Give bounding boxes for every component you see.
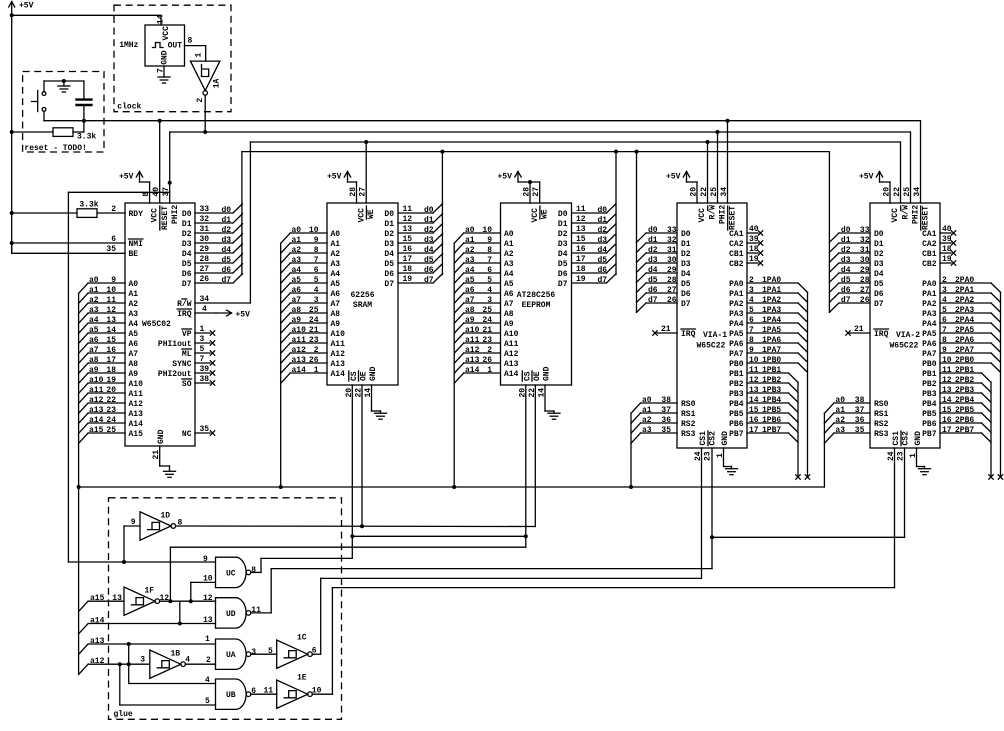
svg-text:D3: D3 bbox=[182, 240, 192, 249]
wire data bus spine bbox=[242, 151, 830, 153]
svg-text:35: 35 bbox=[661, 426, 671, 435]
svg-text:VIA-1: VIA-1 bbox=[703, 331, 727, 340]
data bus d0-d7 at VIA VIA-2 bbox=[829, 226, 883, 312]
wire PHI2 net bbox=[170, 131, 910, 133]
svg-text:WE: WE bbox=[541, 209, 550, 219]
data bus vertical (SRAM) bbox=[440, 150, 444, 275]
svg-text:A4: A4 bbox=[504, 270, 514, 279]
VIA VIA-1 IRQ pin 21 bbox=[653, 325, 696, 339]
svg-text:2PB0: 2PB0 bbox=[955, 356, 974, 365]
svg-text:21: 21 bbox=[661, 325, 671, 334]
svg-text:37: 37 bbox=[661, 406, 671, 415]
svg-text:31: 31 bbox=[860, 246, 870, 255]
svg-text:3: 3 bbox=[140, 655, 145, 664]
nand UB bbox=[216, 679, 257, 709]
svg-text:4: 4 bbox=[314, 286, 319, 295]
svg-text:1PA5: 1PA5 bbox=[762, 326, 781, 335]
svg-text:A2: A2 bbox=[331, 250, 341, 259]
svg-text:d4: d4 bbox=[424, 246, 434, 255]
svg-text:d5: d5 bbox=[424, 256, 434, 265]
svg-text:VP: VP bbox=[182, 330, 192, 339]
address bus a0-a14 at SRAM bbox=[281, 226, 345, 383]
svg-text:CA2: CA2 bbox=[729, 240, 744, 249]
svg-text:1PA2: 1PA2 bbox=[762, 296, 781, 305]
svg-text:PA5: PA5 bbox=[729, 330, 744, 339]
svg-text:RS3: RS3 bbox=[874, 430, 889, 439]
svg-text:2PB1: 2PB1 bbox=[955, 366, 974, 375]
svg-text:8: 8 bbox=[314, 246, 319, 255]
svg-text:1PA0: 1PA0 bbox=[762, 276, 781, 285]
svg-text:a3: a3 bbox=[465, 256, 475, 265]
svg-text:19: 19 bbox=[749, 255, 759, 264]
VIA VIA-1 box bbox=[677, 203, 747, 448]
svg-text:BE: BE bbox=[129, 250, 139, 259]
svg-text:29: 29 bbox=[860, 266, 870, 275]
svg-text:WE: WE bbox=[367, 209, 376, 219]
svg-text:12: 12 bbox=[203, 594, 213, 603]
svg-text:d2: d2 bbox=[841, 246, 851, 255]
svg-text:9: 9 bbox=[942, 346, 947, 355]
svg-text:a10: a10 bbox=[292, 326, 307, 335]
svg-text:CS1: CS1 bbox=[892, 431, 901, 446]
svg-text:23: 23 bbox=[704, 451, 713, 461]
svg-text:PB7: PB7 bbox=[729, 430, 744, 439]
svg-text:4: 4 bbox=[749, 296, 754, 305]
svg-text:2PB3: 2PB3 bbox=[955, 386, 974, 395]
svg-text:VCC: VCC bbox=[891, 208, 900, 223]
wire UC output bbox=[251, 558, 352, 572]
svg-text:3: 3 bbox=[942, 286, 947, 295]
svg-text:d1: d1 bbox=[841, 236, 851, 245]
svg-text:VIA-2: VIA-2 bbox=[896, 331, 920, 340]
svg-text:A2: A2 bbox=[129, 300, 139, 309]
svg-text:5: 5 bbox=[200, 345, 205, 354]
svg-text:PA7: PA7 bbox=[922, 350, 937, 359]
svg-text:1PB0: 1PB0 bbox=[762, 356, 781, 365]
wire riser to UC pin 10 bbox=[191, 582, 216, 601]
svg-text:31: 31 bbox=[667, 246, 677, 255]
svg-text:a6: a6 bbox=[89, 336, 99, 345]
svg-text:d6: d6 bbox=[648, 286, 658, 295]
oscillator X1 box bbox=[145, 25, 185, 66]
svg-text:20: 20 bbox=[106, 386, 116, 395]
svg-text:RDY: RDY bbox=[129, 210, 144, 219]
junction +5V to reset resistor bbox=[10, 130, 14, 134]
wire a15 input bbox=[79, 594, 124, 612]
svg-text:a14: a14 bbox=[292, 366, 307, 375]
svg-text:CA1: CA1 bbox=[922, 230, 937, 239]
power +5V symbol (top left) bbox=[9, 2, 34, 16]
svg-text:A10: A10 bbox=[129, 380, 144, 389]
ground (SRAM) bbox=[375, 411, 387, 419]
svg-text:D6: D6 bbox=[182, 270, 192, 279]
svg-text:a9: a9 bbox=[89, 366, 99, 375]
svg-text:d3: d3 bbox=[222, 236, 232, 245]
svg-text:d5: d5 bbox=[648, 276, 658, 285]
svg-text:40: 40 bbox=[749, 225, 759, 234]
svg-text:7: 7 bbox=[942, 326, 947, 335]
svg-text:a0: a0 bbox=[835, 396, 845, 405]
wire a12 input bbox=[79, 655, 150, 674]
svg-text:D7: D7 bbox=[558, 280, 568, 289]
EEPROM bottom pins CS OE GND bbox=[518, 366, 554, 547]
svg-text:D0: D0 bbox=[681, 230, 691, 239]
svg-text:a1: a1 bbox=[642, 406, 652, 415]
svg-text:3: 3 bbox=[200, 335, 205, 344]
svg-text:A13: A13 bbox=[504, 360, 519, 369]
svg-text:GND: GND bbox=[914, 431, 923, 446]
svg-text:15: 15 bbox=[576, 235, 586, 244]
SRAM bottom pins CS OE GND bbox=[345, 366, 381, 558]
svg-text:17: 17 bbox=[576, 255, 586, 264]
svg-text:PA4: PA4 bbox=[729, 320, 744, 329]
VIA VIA-2 bottom pins CS1 CS2 GND bbox=[887, 431, 925, 467]
svg-text:D2: D2 bbox=[558, 230, 568, 239]
SRAM U2 62256 box bbox=[327, 187, 398, 385]
svg-text:2: 2 bbox=[206, 656, 211, 665]
svg-text:A9: A9 bbox=[331, 320, 341, 329]
svg-text:1E: 1E bbox=[297, 674, 307, 683]
svg-text:19: 19 bbox=[106, 376, 116, 385]
EEPROM U3 AT28C256 box bbox=[501, 187, 572, 385]
svg-text:IRQ: IRQ bbox=[681, 330, 696, 339]
svg-text:22: 22 bbox=[700, 187, 709, 197]
svg-text:PA2: PA2 bbox=[729, 300, 744, 309]
VIA VIA-2 CA1 CA2 CB1 CB2 pins bbox=[922, 225, 956, 269]
SRAM WE pin from R/W net bbox=[364, 140, 368, 203]
svg-text:A5: A5 bbox=[331, 280, 341, 289]
svg-text:PHI2: PHI2 bbox=[171, 205, 180, 224]
svg-text:a8: a8 bbox=[465, 306, 475, 315]
svg-text:33: 33 bbox=[667, 226, 677, 235]
svg-text:1PB4: 1PB4 bbox=[762, 396, 781, 405]
svg-text:reset - TODO!: reset - TODO! bbox=[24, 144, 86, 153]
junction RESET at CPU bbox=[158, 119, 162, 123]
wire inverter 1A output pin 2 bbox=[196, 95, 205, 132]
svg-text:a11: a11 bbox=[89, 386, 104, 395]
svg-text:16: 16 bbox=[942, 416, 952, 425]
svg-text:a8: a8 bbox=[292, 306, 302, 315]
svg-text:3: 3 bbox=[749, 286, 754, 295]
svg-text:10: 10 bbox=[749, 356, 759, 365]
svg-text:1PB5: 1PB5 bbox=[762, 406, 781, 415]
svg-text:11: 11 bbox=[106, 296, 116, 305]
svg-text:CA1: CA1 bbox=[729, 230, 744, 239]
svg-text:A11: A11 bbox=[331, 340, 346, 349]
svg-text:2PA6: 2PA6 bbox=[955, 336, 974, 345]
svg-text:D1: D1 bbox=[384, 220, 394, 229]
svg-text:11: 11 bbox=[749, 366, 759, 375]
svg-text:28: 28 bbox=[200, 255, 210, 264]
svg-text:D1: D1 bbox=[874, 240, 884, 249]
svg-text:PB0: PB0 bbox=[729, 360, 744, 369]
wire UB output to 1E bbox=[251, 687, 277, 696]
svg-text:3: 3 bbox=[487, 296, 492, 305]
register select bus vertical (VIA-1) bbox=[630, 413, 632, 487]
VIA VIA-2 box bbox=[870, 203, 940, 448]
svg-text:35: 35 bbox=[200, 425, 210, 434]
svg-text:32: 32 bbox=[200, 215, 210, 224]
svg-text:2: 2 bbox=[487, 346, 492, 355]
svg-text:RS2: RS2 bbox=[874, 420, 889, 429]
svg-text:PA3: PA3 bbox=[729, 310, 744, 319]
svg-text:GND: GND bbox=[721, 431, 730, 446]
svg-text:UD: UD bbox=[226, 610, 236, 619]
svg-text:17: 17 bbox=[106, 356, 116, 365]
svg-text:D7: D7 bbox=[182, 280, 192, 289]
power +5V at SRAM VCC bbox=[327, 172, 357, 204]
svg-text:a12: a12 bbox=[89, 396, 104, 405]
data bus d0-d7 at EEPROM bbox=[558, 204, 616, 289]
VIA VIA-2 IRQ pin 21 bbox=[846, 325, 889, 339]
svg-text:25: 25 bbox=[903, 187, 912, 197]
svg-text:a12: a12 bbox=[90, 657, 105, 666]
svg-text:D1: D1 bbox=[558, 220, 568, 229]
svg-text:D5: D5 bbox=[558, 260, 568, 269]
oscillator square-wave glyph bbox=[153, 43, 164, 48]
svg-text:D0: D0 bbox=[384, 210, 394, 219]
wire 1B output to UA pin 2 bbox=[185, 656, 215, 665]
svg-text:RS3: RS3 bbox=[681, 430, 696, 439]
svg-text:d3: d3 bbox=[424, 236, 434, 245]
address bus vertical (SRAM) bbox=[280, 243, 282, 487]
svg-text:34: 34 bbox=[720, 187, 729, 197]
svg-text:21: 21 bbox=[482, 326, 492, 335]
oscillator pin 8 OUT bbox=[168, 37, 206, 51]
svg-text:a7: a7 bbox=[89, 346, 99, 355]
svg-text:40: 40 bbox=[942, 225, 952, 234]
svg-text:A4: A4 bbox=[331, 270, 341, 279]
svg-text:W65C22: W65C22 bbox=[697, 342, 726, 351]
svg-text:20: 20 bbox=[690, 187, 699, 197]
svg-text:2PA4: 2PA4 bbox=[955, 316, 974, 325]
svg-text:14: 14 bbox=[106, 326, 116, 335]
svg-text:PHI1out: PHI1out bbox=[158, 340, 192, 349]
svg-text:13: 13 bbox=[203, 616, 213, 625]
wire clock out to inverter 1A bbox=[194, 46, 205, 62]
svg-text:22: 22 bbox=[528, 388, 537, 398]
svg-text:36: 36 bbox=[855, 416, 865, 425]
svg-text:PHI2: PHI2 bbox=[719, 205, 728, 224]
wire button bottom to cap bottom bbox=[44, 120, 84, 122]
wire 1D output to OE line bbox=[176, 525, 536, 528]
svg-text:A0: A0 bbox=[504, 230, 514, 239]
svg-text:d7: d7 bbox=[222, 276, 232, 285]
svg-text:25: 25 bbox=[482, 306, 492, 315]
svg-text:a5: a5 bbox=[89, 326, 99, 335]
wire UD output bbox=[251, 569, 712, 613]
svg-text:UA: UA bbox=[226, 651, 236, 660]
junction 1F out riser A bbox=[168, 599, 172, 603]
svg-text:39: 39 bbox=[749, 235, 759, 244]
svg-text:33: 33 bbox=[860, 226, 870, 235]
svg-text:PA4: PA4 bbox=[922, 320, 937, 329]
junction OE line at SRAM bbox=[360, 524, 364, 528]
svg-text:22: 22 bbox=[355, 388, 364, 398]
svg-text:A7: A7 bbox=[504, 300, 514, 309]
junction data bus at VIA-1 bbox=[635, 150, 639, 154]
svg-text:D2: D2 bbox=[182, 230, 192, 239]
glue dashed box bbox=[109, 498, 342, 720]
ground (reset box) bbox=[58, 81, 70, 92]
svg-text:D5: D5 bbox=[681, 280, 691, 289]
register select bus vertical (VIA-2) bbox=[823, 413, 825, 487]
svg-text:25: 25 bbox=[309, 306, 319, 315]
svg-text:31: 31 bbox=[200, 225, 210, 234]
svg-text:D2: D2 bbox=[681, 250, 691, 259]
svg-text:A14: A14 bbox=[504, 370, 519, 379]
VIA VIA-1 CA1 CA2 CB1 CB2 pins bbox=[729, 225, 763, 269]
svg-text:CB1: CB1 bbox=[922, 250, 937, 259]
port pins PA0-PB7 at VIA VIA-2 bbox=[922, 276, 1000, 443]
svg-text:d7: d7 bbox=[424, 276, 434, 285]
VIA-2 CS2 vertical bbox=[904, 448, 906, 537]
svg-text:d1: d1 bbox=[222, 216, 232, 225]
address bus vertical (CPU) bbox=[78, 293, 80, 674]
svg-text:D4: D4 bbox=[182, 250, 192, 259]
svg-text:UC: UC bbox=[226, 569, 236, 578]
svg-text:D4: D4 bbox=[384, 250, 394, 259]
svg-text:A9: A9 bbox=[129, 370, 139, 379]
svg-text:d7: d7 bbox=[598, 276, 608, 285]
svg-text:5: 5 bbox=[205, 697, 210, 706]
wire UA output to 1C bbox=[251, 647, 277, 656]
svg-text:9: 9 bbox=[487, 236, 492, 245]
svg-text:37: 37 bbox=[855, 406, 865, 415]
svg-text:a13: a13 bbox=[90, 637, 105, 646]
svg-text:1PA1: 1PA1 bbox=[762, 286, 781, 295]
svg-text:a6: a6 bbox=[465, 286, 475, 295]
svg-text:9: 9 bbox=[203, 555, 208, 564]
svg-text:D7: D7 bbox=[384, 280, 394, 289]
svg-text:A10: A10 bbox=[331, 330, 346, 339]
svg-text:RS1: RS1 bbox=[681, 410, 696, 419]
svg-text:d6: d6 bbox=[424, 266, 434, 275]
svg-text:22: 22 bbox=[106, 396, 116, 405]
svg-text:a7: a7 bbox=[292, 296, 302, 305]
svg-text:D3: D3 bbox=[874, 260, 884, 269]
svg-text:RS0: RS0 bbox=[681, 400, 696, 409]
svg-text:PB4: PB4 bbox=[922, 400, 937, 409]
power +5V at VIA VIA-2 bbox=[859, 172, 890, 183]
svg-text:10: 10 bbox=[482, 226, 492, 235]
svg-text:a14: a14 bbox=[465, 366, 480, 375]
svg-text:CA2: CA2 bbox=[922, 240, 937, 249]
wire VIA CS2 link bbox=[712, 536, 905, 538]
svg-text:D6: D6 bbox=[558, 270, 568, 279]
svg-text:d2: d2 bbox=[598, 226, 608, 235]
svg-text:a14: a14 bbox=[90, 616, 105, 625]
svg-text:27: 27 bbox=[667, 286, 677, 295]
svg-text:a6: a6 bbox=[292, 286, 302, 295]
oscillator pin 7 GND bbox=[157, 50, 171, 83]
svg-text:A7: A7 bbox=[129, 350, 139, 359]
wire button top to cap top bbox=[44, 80, 84, 82]
svg-text:D1: D1 bbox=[681, 240, 691, 249]
svg-text:33: 33 bbox=[200, 205, 210, 214]
svg-text:D7: D7 bbox=[874, 300, 884, 309]
svg-text:a11: a11 bbox=[465, 336, 480, 345]
svg-text:A3: A3 bbox=[504, 260, 514, 269]
svg-text:SO: SO bbox=[182, 380, 192, 389]
VIA-2 CS1 vertical bbox=[894, 448, 896, 588]
svg-text:1PA3: 1PA3 bbox=[762, 306, 781, 315]
ground (CPU) bbox=[164, 466, 176, 477]
svg-text:a15: a15 bbox=[90, 594, 105, 603]
svg-text:D5: D5 bbox=[384, 260, 394, 269]
svg-text:PA6: PA6 bbox=[729, 340, 744, 349]
svg-text:13: 13 bbox=[942, 386, 952, 395]
svg-text:a1: a1 bbox=[465, 236, 475, 245]
svg-text:1: 1 bbox=[200, 325, 205, 334]
svg-text:PA6: PA6 bbox=[922, 340, 937, 349]
svg-text:26: 26 bbox=[309, 356, 319, 365]
svg-text:2PA5: 2PA5 bbox=[955, 326, 974, 335]
svg-text:d3: d3 bbox=[841, 256, 851, 265]
svg-text:23: 23 bbox=[482, 336, 492, 345]
svg-text:PA1: PA1 bbox=[922, 290, 937, 299]
svg-text:2: 2 bbox=[314, 346, 319, 355]
junction reset node bbox=[82, 119, 86, 123]
svg-text:A9: A9 bbox=[504, 320, 514, 329]
svg-text:1A: 1A bbox=[213, 78, 222, 88]
svg-text:SRAM: SRAM bbox=[353, 301, 372, 310]
svg-text:6: 6 bbox=[942, 316, 947, 325]
svg-text:2PB7: 2PB7 bbox=[955, 426, 974, 435]
svg-text:7: 7 bbox=[314, 256, 319, 265]
svg-text:PA5: PA5 bbox=[922, 330, 937, 339]
svg-text:a13: a13 bbox=[465, 356, 480, 365]
svg-text:PA1: PA1 bbox=[729, 290, 744, 299]
svg-text:15: 15 bbox=[403, 235, 413, 244]
svg-text:d5: d5 bbox=[841, 276, 851, 285]
svg-text:RESET: RESET bbox=[161, 206, 170, 230]
svg-text:d4: d4 bbox=[648, 266, 658, 275]
svg-text:32: 32 bbox=[860, 236, 870, 245]
svg-text:A6: A6 bbox=[129, 340, 139, 349]
VIA-1 CS1 vertical bbox=[701, 448, 703, 578]
svg-text:VCC: VCC bbox=[358, 208, 367, 223]
power +5V at EEPROM VCC and WE bbox=[498, 172, 540, 204]
junction RESET at VIA-1 bbox=[726, 119, 730, 123]
svg-text:A1: A1 bbox=[504, 240, 514, 249]
svg-text:PHI2: PHI2 bbox=[912, 205, 921, 224]
svg-text:1D: 1D bbox=[161, 512, 171, 521]
svg-text:2PB4: 2PB4 bbox=[955, 396, 974, 405]
svg-text:10: 10 bbox=[942, 356, 952, 365]
svg-text:35: 35 bbox=[855, 426, 865, 435]
svg-text:R/W: R/W bbox=[902, 205, 911, 220]
svg-text:a3: a3 bbox=[292, 256, 302, 265]
svg-text:a4: a4 bbox=[89, 316, 99, 325]
svg-text:D1: D1 bbox=[182, 220, 192, 229]
svg-text:30: 30 bbox=[667, 256, 677, 265]
address bus a0-a14 at EEPROM bbox=[454, 226, 518, 383]
svg-text:18: 18 bbox=[942, 245, 952, 254]
svg-text:D4: D4 bbox=[681, 270, 691, 279]
svg-text:10: 10 bbox=[106, 286, 116, 295]
svg-text:D4: D4 bbox=[558, 250, 568, 259]
svg-text:22: 22 bbox=[893, 187, 902, 197]
svg-text:a9: a9 bbox=[465, 316, 475, 325]
svg-text:A6: A6 bbox=[331, 290, 341, 299]
wire 1D input riser bbox=[124, 526, 140, 562]
svg-text:1PA7: 1PA7 bbox=[762, 346, 781, 355]
svg-text:IRQ: IRQ bbox=[874, 330, 889, 339]
register select a0-a3 at VIA VIA-1 bbox=[631, 396, 696, 444]
CPU U1 W65C02 box and top pins bbox=[125, 121, 195, 446]
svg-text:VCC: VCC bbox=[162, 26, 171, 41]
